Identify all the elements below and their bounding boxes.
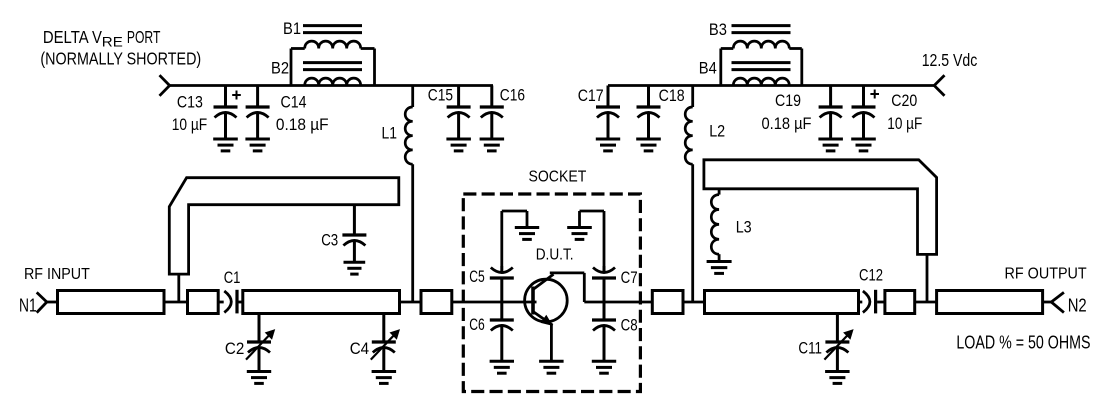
svg-text:10 µF: 10 µF — [887, 114, 922, 133]
svg-text:0.18 µF: 0.18 µF — [762, 114, 812, 133]
svg-text:C7: C7 — [621, 268, 638, 287]
svg-text:C1: C1 — [224, 268, 241, 287]
svg-text:C11: C11 — [798, 339, 822, 358]
wire right bypass top hook — [580, 211, 605, 266]
capacitor C13 — [213, 86, 238, 151]
svg-text:C17: C17 — [578, 86, 604, 105]
terminal 12.5 Vdc — [934, 75, 944, 96]
capacitor C7 — [592, 266, 616, 302]
capacitor C17 — [596, 86, 620, 151]
capacitor C15 — [446, 86, 471, 151]
inductor B3 — [732, 26, 791, 49]
capacitor C16 — [480, 86, 505, 151]
wire B1 parallel risers — [291, 49, 375, 86]
wire stub left tap — [177, 274, 180, 302]
microstrip line 7 — [885, 291, 915, 314]
svg-text:D.U.T.: D.U.T. — [536, 246, 574, 263]
wire line6 to C12 — [859, 301, 863, 304]
wire line3 to line4 — [400, 301, 422, 304]
svg-text:C16: C16 — [500, 86, 525, 105]
microstrip line 5 — [652, 291, 683, 314]
wire emitter to ground — [550, 325, 553, 362]
capacitor C12 (series) — [863, 290, 885, 314]
svg-text:10 µF: 10 µF — [172, 115, 208, 134]
variable capacitor C2 — [246, 314, 275, 384]
inductor L2 — [685, 86, 693, 303]
terminal N1 — [37, 292, 47, 312]
wire line8 to N2 — [1043, 301, 1052, 304]
ground top-left in socket — [515, 228, 539, 240]
wire top-right bias rail — [608, 84, 934, 87]
polarity + of C13 — [232, 91, 241, 100]
svg-text:12.5 Vdc: 12.5 Vdc — [922, 50, 978, 70]
svg-text:C15: C15 — [428, 86, 453, 105]
polarity + of C20 — [870, 90, 879, 99]
svg-text:B3: B3 — [709, 20, 727, 39]
svg-text:SOCKET: SOCKET — [529, 169, 587, 186]
wire top-left bias rail — [170, 84, 493, 87]
svg-text:(NORMALLY SHORTED): (NORMALLY SHORTED) — [40, 49, 201, 69]
terminal DELTA VRE port — [160, 75, 170, 96]
svg-text:C4: C4 — [350, 339, 369, 358]
wire line7 to line8 — [915, 301, 937, 304]
svg-text:C3: C3 — [321, 231, 338, 250]
capacitor C6 — [490, 302, 514, 373]
svg-text:L2: L2 — [709, 122, 725, 141]
ground top-right in socket — [567, 228, 592, 240]
inductor B4 — [732, 63, 791, 86]
capacitor C5 — [490, 266, 514, 302]
svg-text:C18: C18 — [659, 86, 685, 105]
svg-text:DELTA V: DELTA V — [43, 27, 102, 47]
wire left bypass top hook — [502, 211, 527, 266]
microstrip line input — [58, 291, 165, 314]
capacitor C3 — [342, 205, 366, 274]
wire B3 parallel risers — [721, 49, 802, 86]
socket dashed box — [463, 194, 640, 392]
svg-text:C6: C6 — [469, 315, 485, 334]
wire line to C1 — [164, 301, 188, 304]
svg-text:C13: C13 — [177, 92, 203, 111]
svg-text:L1: L1 — [382, 124, 398, 143]
variable capacitor C11 — [824, 314, 853, 384]
svg-text:C2: C2 — [225, 339, 244, 358]
inductor L1 — [405, 86, 413, 303]
capacitor C20 — [851, 86, 876, 151]
ground of L3 — [707, 262, 732, 274]
svg-text:0.18 µF: 0.18 µF — [276, 115, 329, 134]
svg-text:RF OUTPUT: RF OUTPUT — [1005, 265, 1087, 282]
capacitor C8 — [592, 302, 616, 373]
transistor D.U.T. — [525, 273, 585, 326]
wire collector to output — [584, 301, 652, 304]
inductor B1 — [303, 26, 362, 49]
microstrip line 3 — [243, 291, 400, 314]
svg-text:C8: C8 — [621, 316, 638, 335]
inductor B2 — [303, 63, 362, 86]
microstrip stub right (bent) — [704, 160, 937, 255]
svg-text:C19: C19 — [775, 91, 801, 110]
wire N1 to line — [47, 301, 58, 304]
svg-text:C14: C14 — [281, 92, 307, 111]
svg-text:L3: L3 — [736, 218, 752, 237]
svg-text:N1: N1 — [19, 295, 37, 316]
ground emitter — [539, 361, 564, 373]
variable capacitor C4 — [371, 314, 400, 384]
svg-text:C20: C20 — [891, 91, 917, 110]
wire stub right tap — [926, 254, 929, 302]
svg-text:RE: RE — [102, 34, 123, 49]
svg-text:C12: C12 — [859, 265, 883, 284]
svg-text:RF INPUT: RF INPUT — [24, 266, 90, 283]
capacitor C14 — [245, 86, 270, 151]
wire line5 to line6 — [683, 301, 705, 304]
microstrip line 2 — [188, 291, 219, 314]
capacitor C19 — [818, 86, 843, 151]
svg-text:PORT: PORT — [127, 27, 161, 47]
capacitor C1 (series) — [224, 290, 243, 314]
svg-text:B1: B1 — [283, 19, 301, 38]
capacitor C18 — [636, 86, 661, 151]
svg-text:LOAD % = 50 OHMS: LOAD % = 50 OHMS — [956, 333, 1090, 353]
svg-text:C5: C5 — [469, 267, 485, 286]
svg-text:B2: B2 — [271, 59, 289, 78]
microstrip line output — [937, 291, 1043, 314]
microstrip stub left (bent) — [169, 178, 398, 274]
wire to C1 — [218, 301, 224, 304]
svg-text:N2: N2 — [1068, 295, 1087, 316]
microstrip line 4 — [421, 291, 452, 314]
wire into socket to base — [452, 301, 537, 304]
inductor L3 — [711, 189, 719, 262]
terminal N2 — [1051, 292, 1064, 312]
svg-text:B4: B4 — [699, 59, 717, 78]
microstrip line 6 — [705, 291, 859, 314]
